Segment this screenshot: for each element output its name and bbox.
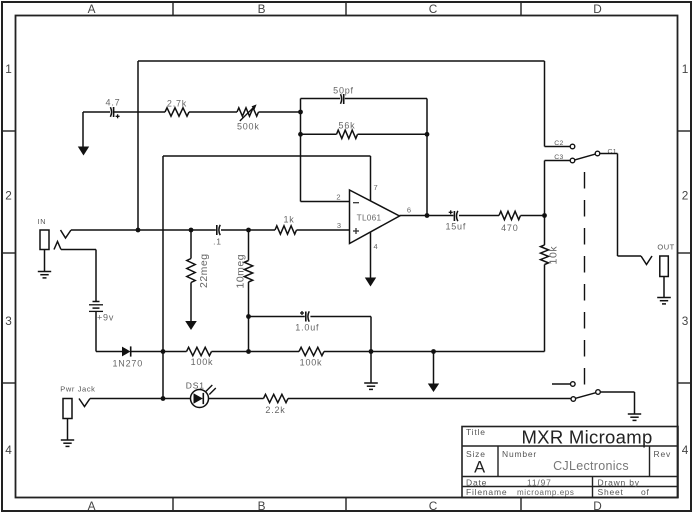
wire feedback right vertical — [426, 99, 428, 216]
contact C2 — [554, 140, 575, 149]
node bypass tap — [136, 228, 141, 233]
svg-text:1: 1 — [5, 62, 12, 76]
wire bypass left vertical — [137, 61, 139, 230]
svg-text:Date: Date — [466, 478, 487, 488]
capacitor 50pf — [333, 86, 354, 105]
svg-text:470: 470 — [501, 223, 518, 233]
node ground branch — [369, 349, 374, 354]
contact B3 — [571, 397, 576, 402]
svg-text:4: 4 — [682, 443, 689, 457]
op-amp U1 TL061 — [350, 190, 400, 244]
resistor 100k (right) — [299, 347, 324, 367]
svg-text:1N270: 1N270 — [113, 359, 144, 369]
node pwr junction — [161, 396, 166, 401]
svg-text:A: A — [88, 2, 96, 16]
svg-text:Rev: Rev — [654, 449, 672, 459]
svg-text:Number: Number — [502, 449, 537, 459]
svg-text:4: 4 — [5, 443, 12, 457]
title block — [462, 427, 678, 498]
svg-text:10k: 10k — [548, 246, 560, 265]
wire feedback left vertical — [300, 99, 302, 202]
svg-text:7: 7 — [374, 183, 378, 192]
node 56k right — [425, 132, 430, 137]
svg-text:+9v: +9v — [97, 313, 114, 323]
svg-text:D: D — [593, 499, 602, 513]
wire to switch contact C2 — [545, 61, 571, 147]
ground arrow on bias rail — [428, 349, 439, 392]
wire op-amp output row — [400, 215, 545, 217]
svg-text:4: 4 — [374, 242, 378, 251]
resistor 2.2k — [264, 394, 289, 415]
wire C1 to output jack — [600, 154, 641, 257]
wire bias rail — [131, 351, 545, 353]
LED DS1 — [186, 381, 216, 408]
svg-text:1k: 1k — [283, 215, 294, 225]
size cell — [466, 449, 486, 477]
wire op-amp pin 2 — [301, 193, 351, 202]
jack J3 Pwr Jack — [60, 385, 95, 447]
wire V+ vertical — [162, 156, 164, 399]
wire bias cap row — [249, 316, 372, 318]
svg-text:2: 2 — [682, 189, 689, 203]
resistor 1k — [275, 215, 297, 235]
battery +9v — [89, 302, 114, 323]
node divider midpoint — [246, 349, 251, 354]
svg-text:Drawn by: Drawn by — [598, 478, 640, 488]
node pot to feedback — [298, 110, 303, 115]
svg-text:Size: Size — [466, 449, 486, 459]
svg-text:56k: 56k — [339, 121, 356, 131]
svg-text:3: 3 — [5, 314, 12, 328]
resistor 470 — [499, 211, 521, 233]
wire 1.0uf to ground vertical — [370, 317, 372, 383]
switch mechanical link (dashed) — [584, 172, 586, 390]
pin 6 label — [407, 206, 411, 215]
svg-text:B: B — [258, 2, 266, 16]
contact C1 — [595, 148, 617, 156]
svg-text:100k: 100k — [191, 357, 214, 367]
svg-text:C: C — [429, 2, 438, 16]
svg-text:C: C — [429, 499, 438, 513]
svg-text:C3: C3 — [554, 154, 564, 161]
wire V+ rail to pin 7 — [163, 155, 371, 157]
svg-text:Pwr Jack: Pwr Jack — [60, 385, 95, 394]
svg-text:2.7k: 2.7k — [167, 99, 187, 109]
jack J1 IN — [37, 217, 71, 278]
resistor 56k — [337, 121, 358, 139]
svg-text:22meg: 22meg — [198, 253, 210, 288]
svg-text:B: B — [258, 499, 266, 513]
jack J2 OUT — [641, 243, 675, 304]
svg-text:11/97: 11/97 — [527, 478, 552, 488]
svg-text:2.2k: 2.2k — [265, 405, 285, 415]
node 22meg top — [189, 228, 194, 233]
wire battery to diode — [96, 311, 122, 351]
capacitor 15uf (polarized) — [445, 210, 466, 231]
svg-text:50pf: 50pf — [333, 86, 354, 96]
svg-text:3: 3 — [337, 221, 341, 230]
svg-text:1: 1 — [682, 62, 689, 76]
svg-text:A: A — [474, 459, 486, 477]
node output to switch — [542, 213, 547, 218]
svg-text:CJLectronics: CJLectronics — [553, 459, 629, 473]
svg-text:100k: 100k — [300, 358, 323, 368]
wire B1 to ground — [600, 392, 634, 414]
node 56k left — [298, 132, 303, 137]
svg-text:microamp.eps: microamp.eps — [517, 488, 574, 497]
title text — [466, 427, 653, 448]
ground bars switch — [628, 414, 641, 420]
svg-text:DS1: DS1 — [186, 381, 205, 391]
svg-text:C2: C2 — [554, 140, 564, 147]
svg-text:3: 3 — [682, 314, 689, 328]
svg-text:A: A — [88, 499, 96, 513]
svg-text:OUT: OUT — [657, 243, 674, 252]
wire input cap row — [83, 111, 301, 113]
filename row — [466, 487, 650, 497]
rev cell — [654, 449, 672, 459]
pin 3 label — [337, 221, 341, 230]
contact B1 — [596, 390, 601, 395]
svg-text:.1: .1 — [213, 237, 222, 247]
svg-text:10meg: 10meg — [235, 254, 247, 289]
wire op-amp pin 4 with ground arrow — [365, 232, 378, 287]
svg-text:6: 6 — [407, 206, 411, 215]
wire 10k to output node — [544, 216, 546, 246]
node 10meg top — [246, 228, 251, 233]
ground bars below 1.0uf — [364, 383, 378, 389]
node supply junction — [161, 349, 166, 354]
svg-text:Title: Title — [466, 427, 486, 437]
wire pwr row — [90, 398, 571, 400]
resistor 22meg with ground arrow — [185, 230, 210, 330]
resistor 100k (left) — [187, 347, 214, 367]
capacitor .1 — [213, 225, 222, 247]
wire battery ring row — [61, 250, 96, 302]
svg-text:1.0uf: 1.0uf — [295, 323, 319, 333]
svg-text:TL061: TL061 — [357, 214, 382, 223]
wire stub contact B2 — [552, 383, 571, 385]
node 10meg bottom — [246, 314, 251, 319]
wire top bypass rail — [138, 60, 545, 62]
svg-text:2: 2 — [5, 189, 12, 203]
wire 50pf branch — [301, 98, 428, 100]
potentiometer 500k — [237, 104, 260, 131]
svg-text:15uf: 15uf — [445, 222, 466, 232]
svg-text:2: 2 — [336, 193, 340, 202]
capacitor 1.0uf (polarized) — [295, 311, 319, 333]
svg-text:Sheet: Sheet — [598, 487, 624, 497]
svg-text:Filename: Filename — [466, 487, 507, 497]
wire op-amp pin 7 — [371, 156, 378, 201]
resistor 10meg — [235, 230, 253, 352]
resistor 2.7k — [165, 99, 189, 117]
wire 56k branch — [301, 133, 428, 135]
diode D1 1N270 — [113, 346, 144, 368]
number cell — [502, 449, 629, 473]
resistor 10k — [541, 245, 560, 265]
svg-text:of: of — [641, 487, 650, 497]
svg-text:MXR Microamp: MXR Microamp — [521, 427, 652, 448]
wire bias rail up to 10k — [544, 265, 546, 352]
svg-text:D: D — [593, 2, 602, 16]
svg-text:500k: 500k — [237, 122, 260, 132]
wire input signal row — [71, 229, 350, 231]
capacitor 4.7 (polarized) — [106, 98, 121, 119]
contact B2 — [571, 382, 576, 387]
svg-text:IN: IN — [37, 217, 46, 226]
svg-text:4.7: 4.7 — [106, 98, 121, 108]
switch arm SW1a — [575, 154, 596, 160]
wire to switch contact C3 — [545, 161, 571, 216]
date row — [466, 478, 640, 488]
switch arm SW1b — [576, 393, 596, 399]
contact C3 — [554, 154, 575, 163]
node output feedback — [425, 213, 430, 218]
ground arrow for input cap C 4.7 — [78, 112, 89, 156]
